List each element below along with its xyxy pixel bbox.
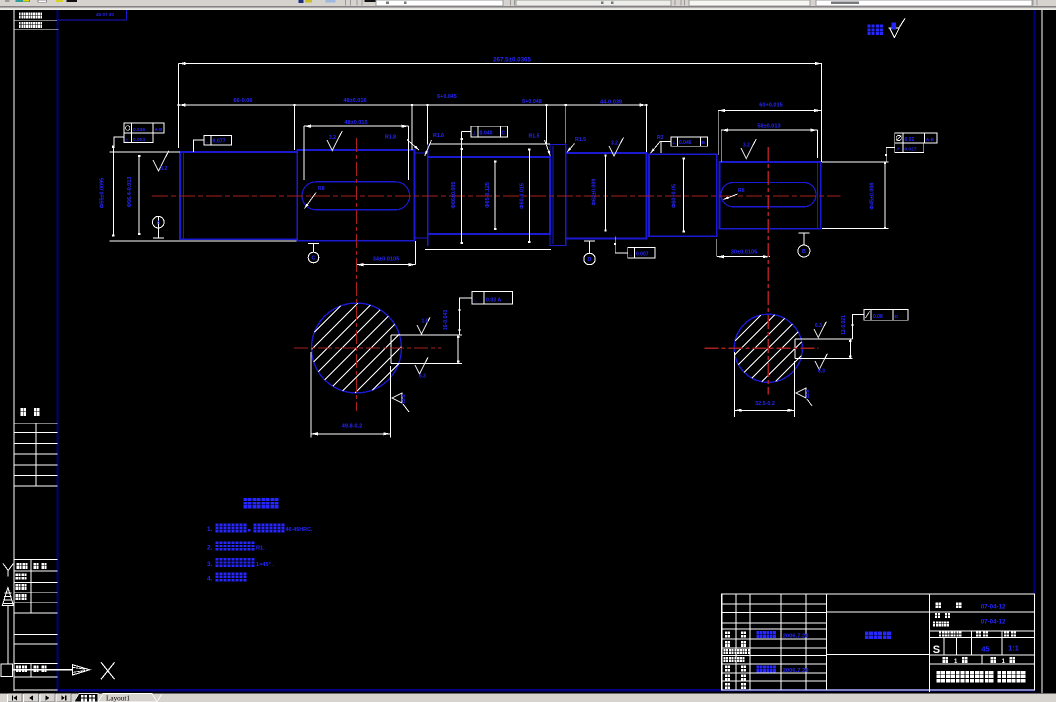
svg-text:30±0.0105: 30±0.0105 (731, 250, 757, 256)
svg-text:6.3: 6.3 (818, 369, 825, 375)
svg-text:3.: 3. (207, 561, 213, 568)
shaft outline (180, 152, 297, 239)
svg-text:2006.7.20: 2006.7.20 (783, 633, 809, 639)
svg-text:16-0.043: 16-0.043 (443, 310, 449, 331)
svg-text:R6: R6 (738, 188, 745, 194)
svg-text:12-0.021: 12-0.021 (841, 315, 847, 335)
svg-text:07-04-12: 07-04-12 (981, 619, 1006, 626)
svg-text:2.: 2. (207, 545, 213, 552)
svg-text:Φ62±0.009: Φ62±0.009 (592, 179, 598, 206)
svg-text:6.3: 6.3 (419, 374, 426, 380)
svg-text:3.2: 3.2 (743, 143, 750, 149)
svg-text:66-0.06: 66-0.06 (234, 98, 253, 104)
title block (722, 594, 1035, 690)
svg-text:B: B (802, 249, 806, 255)
svg-text:45 07 30: 45 07 30 (96, 12, 114, 17)
svg-text:07-04-12: 07-04-12 (981, 603, 1006, 610)
svg-text:3.2: 3.2 (329, 135, 336, 141)
svg-text:0.02: 0.02 (905, 137, 915, 143)
svg-text:D: D (588, 257, 592, 263)
svg-text:1:1: 1:1 (1008, 644, 1019, 653)
svg-text:C: C (502, 130, 506, 136)
svg-text:Φ60+0.05: Φ60+0.05 (672, 184, 678, 208)
svg-text:1.: 1. (207, 526, 213, 533)
svg-text:40-45HRC.: 40-45HRC. (286, 527, 313, 533)
svg-text:D: D (895, 314, 899, 320)
svg-text:60+0.015: 60+0.015 (759, 103, 783, 109)
svg-text:6+0.045: 6+0.045 (437, 94, 457, 100)
sheet frame (13, 10, 15, 691)
svg-text:0.046: 0.046 (679, 140, 692, 146)
technical notes (243, 498, 251, 509)
svg-text:3.2: 3.2 (611, 141, 618, 147)
svg-text:R1.5: R1.5 (575, 137, 586, 143)
cross sections (312, 303, 402, 393)
svg-text:S: S (933, 644, 940, 656)
svg-text:0.03 A: 0.03 A (486, 298, 501, 304)
svg-text:44-0.039: 44-0.039 (600, 100, 622, 106)
svg-text:48±0.016: 48±0.016 (343, 98, 366, 104)
svg-text:267.5±0.0365: 267.5±0.0365 (493, 57, 531, 64)
svg-text:Layout1: Layout1 (106, 695, 130, 702)
svg-text:R8: R8 (318, 186, 325, 192)
svg-text:2006.7.20: 2006.7.20 (783, 668, 809, 674)
svg-text:A: A (156, 220, 160, 226)
svg-text:48±0.015: 48±0.015 (344, 120, 367, 126)
svg-text:1.6: 1.6 (422, 319, 429, 325)
svg-text:49.8-0.2: 49.8-0.2 (342, 424, 363, 430)
svg-text:Φ60-0.015: Φ60-0.015 (520, 183, 526, 209)
svg-text:B: B (702, 140, 706, 146)
svg-text:0.003: 0.003 (133, 137, 145, 143)
svg-text:R2: R2 (657, 135, 664, 141)
svg-text:∟: ∟ (474, 298, 479, 303)
svg-text:∟: ∟ (629, 252, 633, 257)
svg-text:0.040: 0.040 (480, 130, 493, 136)
toolbar (0, 0, 1056, 10)
svg-text:R1.: R1. (256, 546, 265, 552)
svg-text:Φ65-0.125: Φ65-0.125 (485, 182, 491, 208)
svg-text:34±0.0105: 34±0.0105 (373, 257, 399, 263)
svg-text:0.007: 0.007 (636, 252, 649, 258)
svg-text:A-B: A-B (926, 137, 935, 142)
svg-text:12.5: 12.5 (401, 394, 407, 404)
layout tab bar (0, 694, 1056, 702)
svg-text:R1.8: R1.8 (385, 135, 396, 141)
svg-text:R1.5: R1.5 (529, 134, 540, 140)
svg-text:32.5-0.2: 32.5-0.2 (755, 401, 775, 407)
svg-text:45: 45 (981, 645, 989, 654)
svg-text:Φ55±0.0095: Φ55±0.0095 (100, 178, 106, 208)
svg-text:5+0.048: 5+0.048 (522, 99, 542, 105)
svg-text:A-B: A-B (155, 127, 163, 132)
svg-text:0.08: 0.08 (873, 314, 883, 320)
svg-text:6.3: 6.3 (815, 323, 822, 329)
svg-text:1×45° .: 1×45° . (256, 562, 274, 568)
svg-text:R1.6: R1.6 (433, 133, 444, 139)
svg-text:3.2: 3.2 (160, 166, 167, 172)
svg-text:0.077: 0.077 (213, 139, 226, 145)
svg-text:⊥: ⊥ (672, 140, 676, 145)
svg-text:0.027: 0.027 (905, 146, 917, 152)
svg-text:58±0.013: 58±0.013 (757, 124, 780, 130)
svg-text:C: C (312, 256, 316, 262)
svg-text:4.: 4. (207, 576, 213, 583)
svg-text:∟: ∟ (205, 139, 209, 144)
svg-text:0.036: 0.036 (133, 127, 145, 133)
svg-text:↗: ↗ (896, 146, 900, 151)
svg-text:12.5: 12.5 (805, 389, 810, 398)
dimensions (109, 151, 180, 153)
svg-text:Φ45±0.008: Φ45±0.008 (870, 183, 876, 210)
svg-text:Φ66±0.005: Φ66±0.005 (451, 182, 457, 209)
svg-text:Φ56.4-0.013: Φ56.4-0.013 (127, 177, 133, 208)
